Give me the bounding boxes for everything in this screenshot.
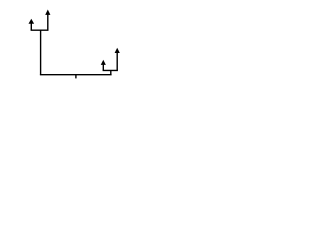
wire: left tall arrow stem	[47, 14, 49, 30]
wire: riser from bus up to right connector	[110, 70, 112, 74]
wire: left connector horizontal	[31, 29, 49, 31]
wire: right tall arrow stem	[116, 53, 118, 71]
stub: tick below bus	[75, 75, 77, 79]
background	[0, 0, 150, 89]
arrowhead: right short arrow	[101, 60, 106, 65]
wire: right short arrow stem	[102, 65, 104, 71]
arrowhead: left tall arrow	[45, 10, 50, 15]
wire: bottom bus horizontal	[40, 74, 112, 76]
wire: right connector horizontal	[103, 69, 118, 71]
arrowhead: right tall arrow	[115, 48, 120, 53]
arrowhead: left short arrow	[29, 19, 35, 24]
wire: left short arrow stem	[30, 23, 32, 30]
wire: vertical stem from left group down to bus	[40, 30, 42, 75]
